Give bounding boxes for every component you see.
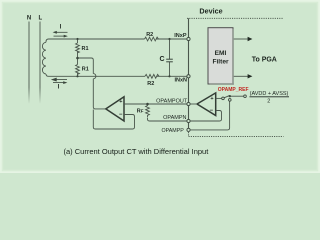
svg-text:R1: R1 (82, 46, 89, 52)
svg-text:OPAMPP: OPAMPP (162, 128, 185, 134)
node center tap (76, 57, 79, 60)
svg-text:+: + (210, 96, 213, 102)
op-amp U1 external buffer (106, 97, 124, 121)
current arrow bottom left (52, 78, 67, 84)
svg-text:(a) Current Output CT with Dif: (a) Current Output CT with Differential … (64, 147, 210, 156)
svg-text:INxP: INxP (174, 33, 187, 39)
svg-text:−: − (119, 112, 123, 118)
svg-text:OPAMPOUT: OPAMPOUT (156, 99, 188, 105)
node top wire / R1 (76, 38, 78, 40)
svg-text:C: C (160, 56, 165, 63)
wire U2 + input to switch (216, 97, 222, 99)
svg-text:+: + (119, 99, 122, 105)
node OPAMPOUT / RF (146, 103, 149, 106)
EMI filter block (208, 28, 234, 85)
svg-text:OPAMP_REF: OPAMP_REF (218, 87, 249, 93)
pin INxN (187, 75, 190, 78)
wire U2 - input feedback to OPAMPN (190, 111, 221, 122)
capacitor C leads (169, 39, 171, 59)
wire top (49, 38, 145, 40)
svg-text:R2: R2 (146, 32, 153, 38)
capacitor C plates (166, 59, 173, 62)
node top wire / C (168, 38, 170, 40)
resistor RF (146, 104, 150, 117)
node L line (39, 22, 41, 104)
wire top horizontal from CT to INxP (46, 39, 49, 42)
op-amp U2 internal (197, 93, 216, 116)
junction dots (76, 38, 231, 105)
device boundary left pin bus (188, 18, 190, 128)
svg-text:To PGA: To PGA (252, 57, 277, 64)
node switch contact (229, 95, 231, 97)
node OPAMP_REF terminal (244, 95, 247, 98)
wire EMI filter outputs (233, 38, 248, 40)
wire buffer feedback loop (93, 110, 134, 130)
svg-text:Device: Device (199, 7, 222, 16)
resistor R2 bottom body (145, 74, 159, 78)
resistor R1 upper (77, 39, 79, 43)
svg-text:(AVDD + AVSS): (AVDD + AVSS) (250, 91, 289, 97)
node N line (28, 22, 30, 104)
svg-text:−: − (210, 108, 214, 114)
arrowheads to PGA (248, 37, 253, 79)
pin OPAMPOUT (187, 102, 190, 105)
device boundary dashed top (187, 17, 284, 19)
svg-text:OPAMPN: OPAMPN (163, 115, 186, 121)
svg-text:R2: R2 (147, 81, 154, 87)
pin OPAMPN (187, 119, 190, 122)
resistor R2 top body (145, 37, 159, 41)
wire center tap to buffer output (78, 58, 94, 74)
wire switch to OPAMP_REF node (231, 95, 244, 97)
current arrow top left (53, 31, 68, 38)
svg-text:L: L (38, 16, 42, 22)
pin circles (187, 37, 246, 131)
node bottom wire / C (168, 75, 170, 77)
svg-text:R1: R1 (82, 66, 89, 72)
pin OPAMPP (187, 128, 190, 131)
svg-text:N: N (27, 16, 31, 22)
pin INxP (187, 37, 190, 40)
wire hop over bottom wire (93, 74, 96, 79)
svg-text:EMI: EMI (215, 50, 227, 57)
wire OPAMPOUT pin to U2 output (190, 103, 197, 105)
node bottom wire / R1 (76, 75, 78, 77)
wire OPAMPP from pin (190, 102, 229, 130)
switch lower contact (229, 99, 232, 102)
resistor R1 lower (77, 58, 79, 65)
switch pole (222, 97, 225, 100)
wire bottom (49, 75, 146, 77)
wire buffer + input to OPAMPOUT (124, 103, 187, 105)
svg-text:Filter: Filter (212, 59, 229, 66)
svg-text:INxN: INxN (174, 78, 187, 84)
svg-text:2: 2 (267, 98, 270, 104)
device boundary dashed bottom (189, 130, 284, 137)
transformer CT secondary coil (42, 42, 46, 74)
switch blade (224, 96, 229, 98)
